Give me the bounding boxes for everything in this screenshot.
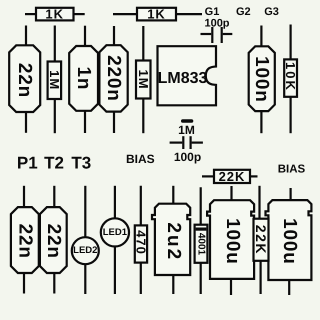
svg-text:BIAS: BIAS: [278, 163, 306, 175]
svg-text:4001: 4001: [195, 233, 206, 256]
wire through D-4001: [200, 187, 202, 294]
wire below C-220n: [113, 112, 115, 133]
capacitor C-100p#1 leads: [201, 33, 212, 35]
svg-text:2u2: 2u2: [163, 222, 184, 261]
svg-text:LM833: LM833: [158, 70, 208, 87]
wire above R-1M#1: [54, 26, 56, 62]
svg-text:1K: 1K: [45, 7, 64, 22]
wire below C-22n#3: [53, 273, 55, 294]
resistor R-1K#1: [36, 8, 74, 21]
svg-text:22n: 22n: [14, 224, 35, 259]
wire above LED1: [114, 186, 116, 219]
trimmer 1M bar: [181, 119, 193, 123]
capacitor C-22n#2: [11, 207, 39, 273]
svg-text:T3: T3: [71, 154, 91, 173]
wire below C-22n#1: [25, 111, 27, 133]
wire below C-1n: [84, 111, 86, 133]
svg-text:G1: G1: [205, 6, 220, 18]
svg-text:22K: 22K: [219, 169, 246, 184]
svg-text:P1: P1: [17, 154, 38, 173]
resistor R-470: [135, 225, 147, 262]
wire: 1K R1 left lead: [25, 13, 36, 15]
wire below R-1M#1: [54, 99, 56, 133]
svg-text:BIAS: BIAS: [126, 152, 155, 166]
resistor R-1M#2: [136, 61, 151, 99]
wire through R-470: [140, 186, 142, 294]
svg-text:100u: 100u: [222, 218, 243, 265]
svg-text:100n: 100n: [251, 56, 272, 103]
capacitor C-100u#2 electrolytic: [266, 200, 312, 280]
svg-text:LED1: LED1: [103, 227, 128, 238]
wire below LED2: [84, 264, 86, 294]
svg-text:1M: 1M: [136, 69, 151, 89]
svg-text:1n: 1n: [73, 67, 94, 91]
capacitor C-220n: [99, 45, 127, 111]
wire above C-22n#2: [23, 186, 25, 208]
svg-text:22n: 22n: [14, 63, 35, 98]
wire: 1K R1 right lead: [74, 13, 85, 15]
wire above C-22n#1: [25, 26, 27, 46]
wire below C-100u#2: [288, 280, 290, 295]
resistor R-22K horizontal: [214, 170, 250, 183]
diode D-4001 band: [196, 228, 207, 231]
svg-text:100p: 100p: [174, 150, 201, 164]
svg-text:470: 470: [134, 230, 149, 255]
resistor R-22K horizontal leads: [202, 175, 214, 177]
capacitor C-2u2 electrolytic: [152, 204, 190, 275]
op-amp U1 LM833: [158, 46, 217, 105]
wire above C-100n: [260, 26, 262, 47]
wire below R-22K vertical: [260, 261, 262, 294]
svg-text:100p: 100p: [204, 17, 229, 29]
wire above R-10K: [290, 25, 292, 60]
wire below R-10K: [290, 97, 292, 133]
resistor R-22K vertical: [254, 219, 269, 261]
svg-text:G3: G3: [264, 6, 279, 18]
resistor R-10K: [284, 59, 297, 96]
wire below C-2u2: [172, 275, 174, 294]
svg-text:G2: G2: [236, 6, 251, 18]
svg-text:1M: 1M: [47, 70, 62, 90]
resistor R-1K#2: [137, 8, 176, 21]
svg-text:LED2: LED2: [73, 245, 97, 256]
svg-text:100u: 100u: [279, 218, 300, 265]
capacitor C-22n#1: [9, 45, 40, 112]
wire: 1K R2 right lead: [176, 13, 202, 15]
capacitor C-100p#2 right lead: [192, 142, 203, 144]
capacitor C-1n: [69, 46, 98, 111]
LED2: [72, 237, 99, 264]
wire above R-1M#2: [142, 26, 144, 61]
wire above LED2: [84, 186, 86, 238]
capacitor C-100p#2 left lead: [170, 142, 183, 144]
capacitor C-100n: [249, 46, 275, 111]
LED1: [101, 218, 129, 246]
wire below C-100n: [260, 111, 262, 133]
diode D-4001: [195, 225, 208, 263]
wire: 1K R2 left lead: [113, 13, 137, 15]
svg-text:10K: 10K: [283, 62, 298, 92]
svg-text:22n: 22n: [43, 224, 64, 259]
resistor R-1M#1: [48, 62, 62, 100]
svg-text:T2: T2: [44, 154, 64, 173]
wire above C-220n: [113, 26, 115, 46]
wire below C-22n#2: [23, 273, 25, 294]
capacitor C-100p#1 plates: [211, 27, 213, 43]
wire above R-22K vertical: [258, 186, 260, 219]
wire below LED1: [114, 246, 116, 294]
capacitor C-100p#2 plates: [182, 136, 184, 149]
wire above C-2u2: [172, 186, 174, 204]
svg-text:220n: 220n: [103, 55, 124, 102]
svg-text:1K: 1K: [147, 7, 166, 22]
svg-text:22K: 22K: [253, 225, 269, 255]
capacitor C-100u#1 electrolytic: [207, 200, 254, 279]
wire above C-1n: [84, 26, 86, 46]
wire above C-100u#2: [290, 188, 292, 201]
capacitor C-22n#3: [40, 207, 67, 273]
wire above C-100u#1: [230, 186, 232, 202]
wire below C-100u#1: [230, 279, 232, 295]
svg-text:1M: 1M: [178, 123, 195, 137]
wire above C-22n#3: [53, 186, 55, 208]
wire below R-1M#2: [142, 99, 144, 134]
